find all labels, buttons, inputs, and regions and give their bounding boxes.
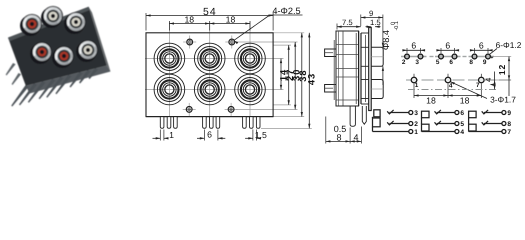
svg-text:9: 9 — [483, 59, 487, 66]
svg-text:Φ8.4: Φ8.4 — [381, 30, 391, 50]
svg-text:4: 4 — [460, 129, 464, 136]
svg-text:2: 2 — [414, 121, 418, 128]
svg-text:-0.1: -0.1 — [394, 21, 400, 30]
svg-text:2: 2 — [402, 59, 406, 66]
svg-text:6: 6 — [411, 40, 416, 50]
svg-text:5: 5 — [460, 121, 464, 128]
svg-text:4: 4 — [484, 77, 493, 82]
svg-text:1.5: 1.5 — [370, 18, 381, 27]
svg-text:1: 1 — [169, 130, 174, 140]
svg-text:6: 6 — [479, 40, 484, 50]
svg-text:7: 7 — [476, 82, 480, 89]
svg-text:6: 6 — [449, 59, 453, 66]
svg-text:6: 6 — [207, 129, 212, 139]
svg-text:3: 3 — [414, 110, 418, 117]
svg-text:43: 43 — [306, 73, 316, 85]
svg-text:3: 3 — [415, 59, 419, 66]
svg-text:6: 6 — [460, 110, 464, 117]
svg-text:9: 9 — [507, 110, 511, 117]
svg-text:4-Φ2.5: 4-Φ2.5 — [272, 6, 300, 16]
svg-text:4: 4 — [353, 132, 358, 142]
svg-text:9: 9 — [369, 9, 373, 18]
svg-text:54: 54 — [203, 7, 217, 18]
svg-text:8: 8 — [336, 132, 341, 142]
svg-text:1: 1 — [415, 82, 419, 89]
svg-text:12: 12 — [497, 64, 507, 75]
svg-text:7.5: 7.5 — [342, 18, 353, 27]
svg-text:8: 8 — [507, 121, 511, 128]
svg-text:7: 7 — [507, 129, 511, 136]
svg-text:6-Φ1.2: 6-Φ1.2 — [496, 40, 522, 50]
svg-text:18: 18 — [226, 15, 236, 25]
svg-text:8: 8 — [469, 59, 473, 66]
svg-text:6: 6 — [445, 40, 450, 50]
svg-text:4: 4 — [449, 82, 453, 89]
svg-text:3-Φ1.7: 3-Φ1.7 — [490, 95, 516, 105]
svg-text:5: 5 — [436, 59, 440, 66]
svg-text:18: 18 — [426, 95, 436, 105]
svg-text:1.5: 1.5 — [255, 130, 267, 140]
svg-text:1: 1 — [414, 129, 418, 136]
svg-text:18: 18 — [460, 95, 470, 105]
svg-text:18: 18 — [184, 15, 194, 25]
